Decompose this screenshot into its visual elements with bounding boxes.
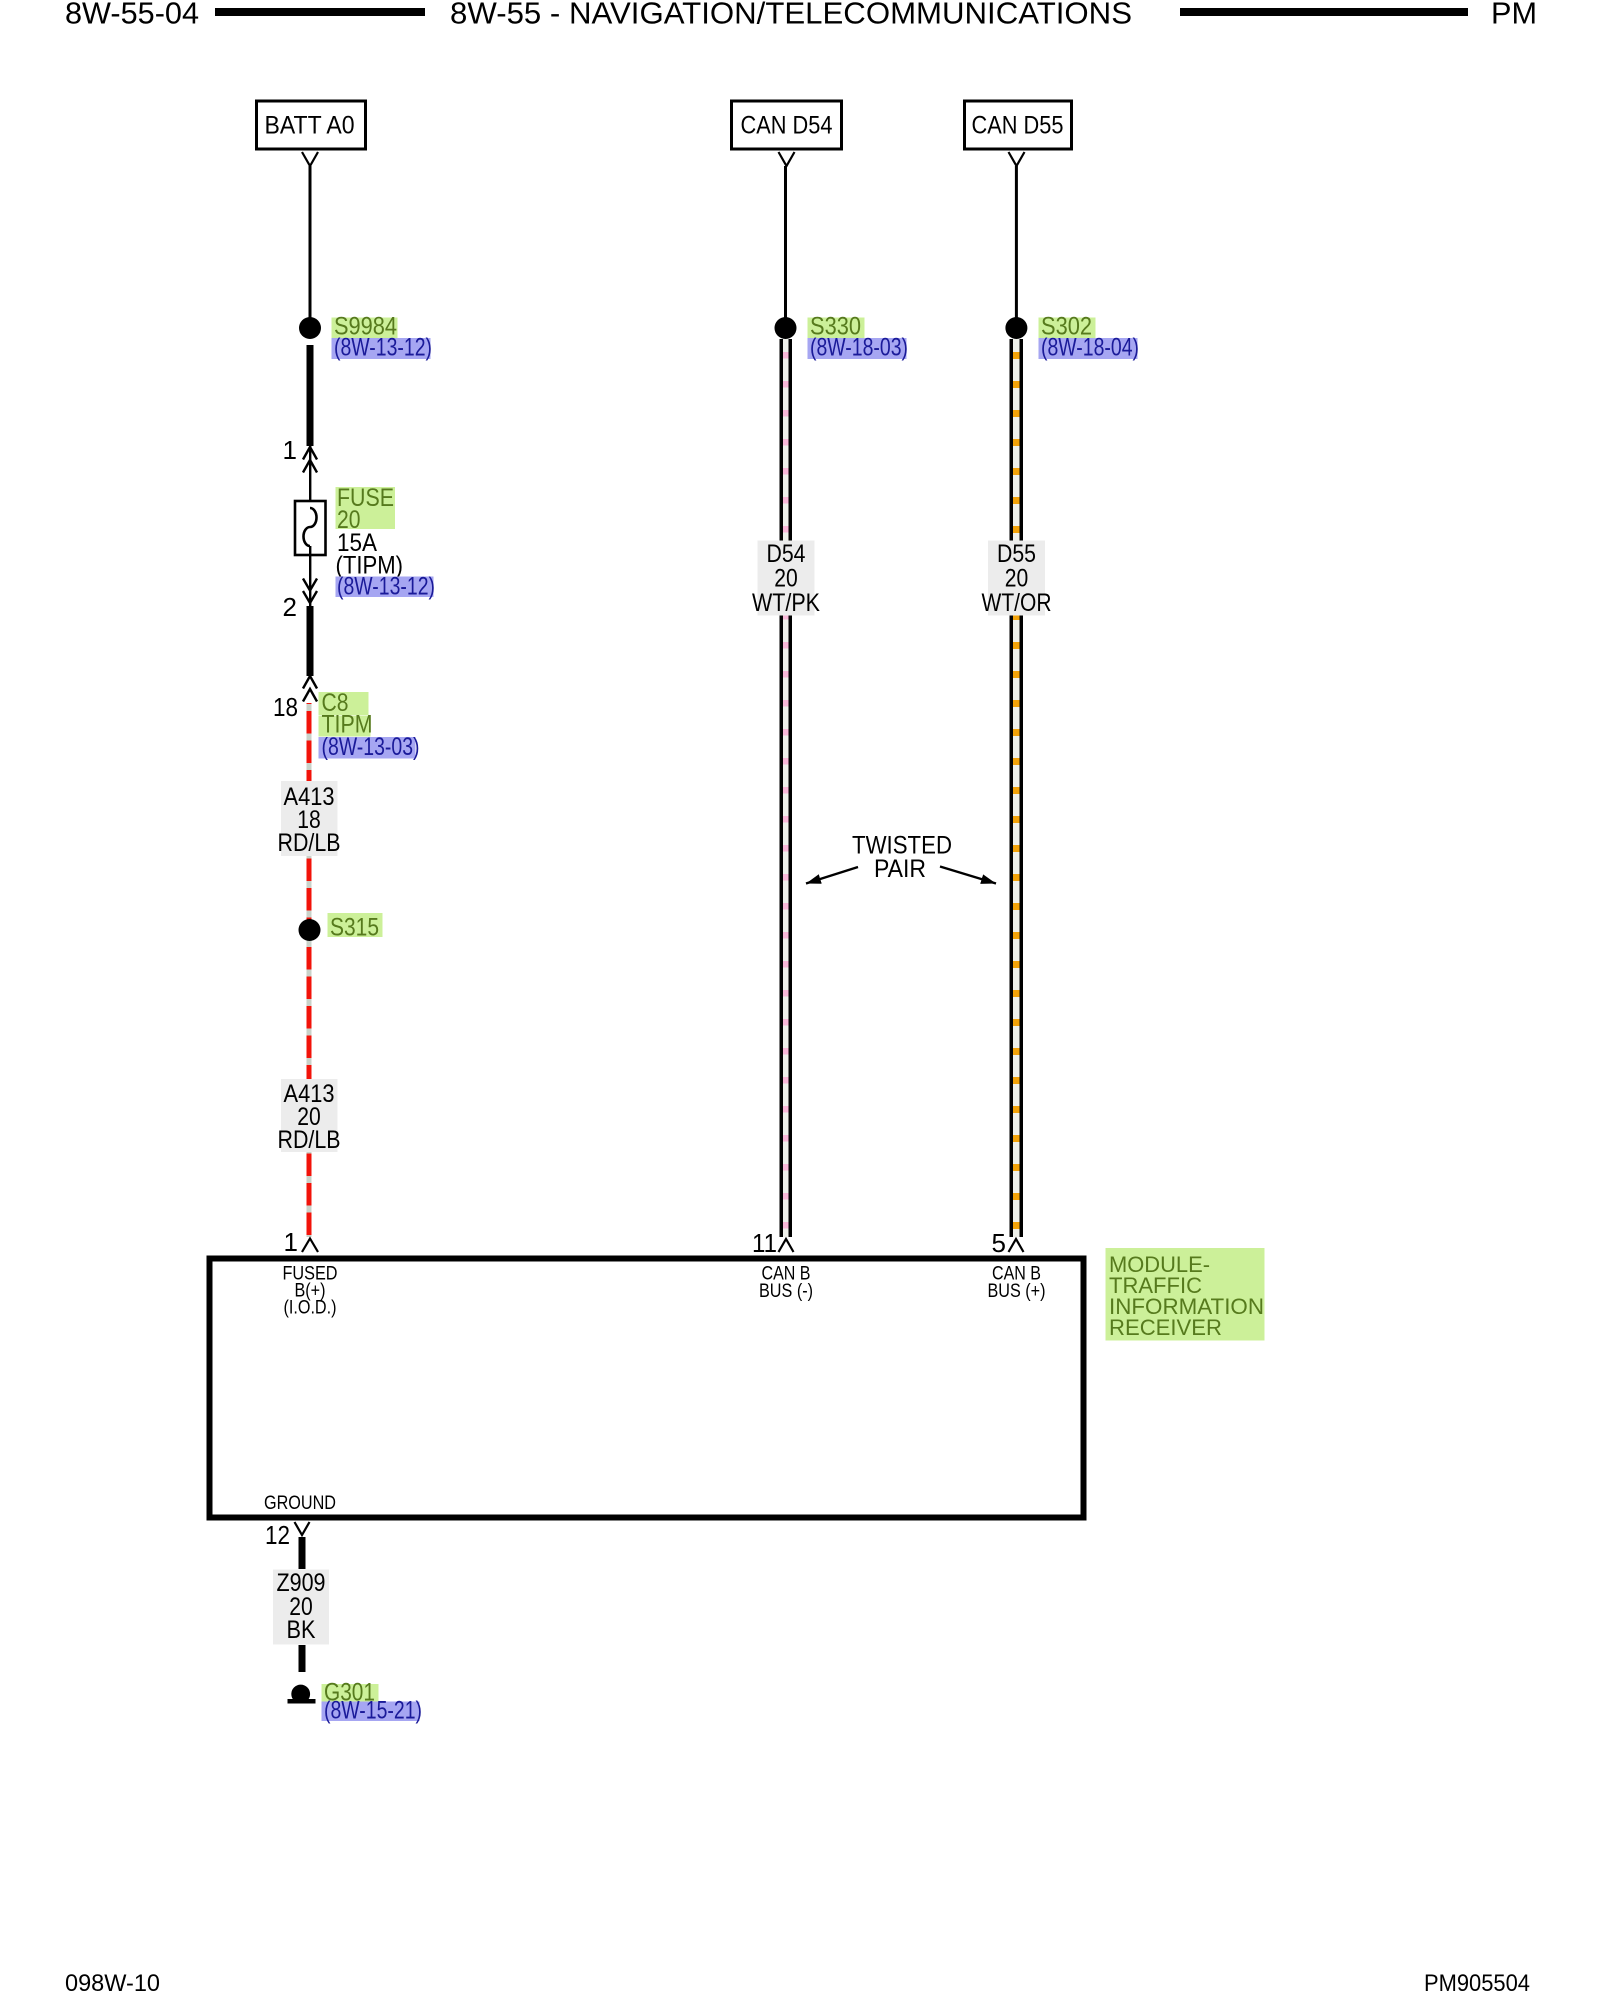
chevron below BATT A0 bbox=[302, 152, 318, 166]
svg-text:(8W-18-03): (8W-18-03) bbox=[810, 334, 908, 362]
reference (8W-13-03) bbox=[319, 733, 420, 761]
reference (8W-15-21) bbox=[322, 1697, 423, 1725]
svg-text:RD/LB: RD/LB bbox=[278, 829, 341, 857]
chevron below CAN D55 bbox=[1009, 152, 1025, 166]
svg-text:1: 1 bbox=[284, 1227, 298, 1257]
svg-text:(I.O.D.): (I.O.D.) bbox=[284, 1298, 337, 1319]
svg-text:CAN D54: CAN D54 bbox=[741, 112, 833, 140]
svg-text:(8W-13-12): (8W-13-12) bbox=[334, 334, 432, 362]
splice S330 bbox=[775, 317, 797, 339]
pin 12 chevron down bbox=[295, 1522, 310, 1535]
label D54 20 WT/PK bbox=[752, 540, 820, 617]
fuse FUSE 20 symbol bbox=[295, 501, 326, 555]
wire thick black to C8 bbox=[307, 606, 314, 676]
pin label CAN B BUS (-) bbox=[759, 1264, 813, 1303]
header rule left bbox=[215, 8, 425, 16]
wire BATT A0 to splice S9984 bbox=[309, 166, 312, 318]
svg-text:2: 2 bbox=[283, 592, 297, 622]
svg-text:18: 18 bbox=[273, 692, 298, 722]
note TWISTED PAIR bbox=[852, 832, 952, 884]
svg-text:WT/OR: WT/OR bbox=[982, 589, 1052, 617]
label TIPM bbox=[319, 711, 373, 739]
twisted pair arrow right bbox=[940, 867, 996, 884]
pin 11 chevron bbox=[779, 1239, 794, 1252]
svg-text:12: 12 bbox=[265, 1520, 290, 1550]
svg-text:BUS (+): BUS (+) bbox=[988, 1281, 1046, 1302]
twisted pair arrow left bbox=[806, 867, 858, 884]
splice S315 bbox=[299, 919, 321, 941]
wire twisted pair D55 WT/OR bbox=[1010, 339, 1024, 1237]
label D55 20 WT/OR bbox=[982, 540, 1052, 617]
svg-text:8W-55 - NAVIGATION/TELECOMMUNI: 8W-55 - NAVIGATION/TELECOMMUNICATIONS bbox=[450, 0, 1132, 31]
label S315 bbox=[328, 913, 383, 942]
reference (8W-18-03) bbox=[808, 334, 909, 362]
wire black Z909 upper bbox=[299, 1537, 306, 1569]
wire thick black S9984 down bbox=[307, 345, 314, 446]
svg-text:(8W-15-21): (8W-15-21) bbox=[324, 1697, 422, 1725]
module box TRAFFIC INFORMATION RECEIVER bbox=[210, 1259, 1084, 1518]
label A413 20 RD/LB bbox=[278, 1079, 341, 1154]
svg-text:S315: S315 bbox=[330, 914, 379, 942]
svg-text:PM: PM bbox=[1491, 0, 1537, 31]
label S330 bbox=[808, 313, 865, 341]
svg-text:098W-10: 098W-10 bbox=[65, 1970, 160, 1997]
wire CAN D55 to splice S302 bbox=[1015, 166, 1018, 318]
svg-text:BUS (-): BUS (-) bbox=[759, 1281, 813, 1302]
pin label CAN B BUS (+) bbox=[988, 1264, 1046, 1303]
pin 5 chevron bbox=[1009, 1239, 1024, 1252]
svg-text:11: 11 bbox=[752, 1228, 777, 1258]
svg-text:5: 5 bbox=[992, 1228, 1006, 1258]
label A413 18 RD/LB bbox=[278, 781, 341, 857]
header rule right bbox=[1180, 8, 1468, 16]
svg-text:RECEIVER: RECEIVER bbox=[1109, 1315, 1222, 1340]
label C8 bbox=[319, 689, 369, 717]
svg-text:WT/PK: WT/PK bbox=[752, 589, 820, 617]
chevron below CAN D54 bbox=[779, 152, 795, 166]
svg-text:RD/LB: RD/LB bbox=[278, 1126, 341, 1154]
svg-text:BATT A0: BATT A0 bbox=[265, 112, 355, 140]
wire red RD/LB upper run bbox=[307, 703, 312, 1237]
connector box CAN D55 bbox=[965, 101, 1072, 149]
connector box CAN D54 bbox=[732, 101, 842, 149]
pin label FUSED B(+) (I.O.D.) bbox=[283, 1264, 338, 1319]
reference (8W-13-12) bbox=[332, 334, 433, 362]
splice S9984 bbox=[299, 317, 321, 339]
module name label MODULE-TRAFFIC INFORMATION RECEIVER bbox=[1106, 1248, 1265, 1341]
label Z909 20 BK bbox=[273, 1569, 329, 1645]
connector arrows pin 18 C8 (double chevron up) bbox=[303, 676, 317, 702]
wire thin below fuse bbox=[309, 546, 311, 607]
label FUSE 20 bbox=[336, 484, 396, 534]
ground symbol G301 bbox=[288, 1685, 316, 1704]
svg-text:CAN D55: CAN D55 bbox=[972, 112, 1064, 140]
connector arrows pin 2 fuse (double chevron down) bbox=[303, 579, 317, 604]
svg-text:PM905504: PM905504 bbox=[1424, 1970, 1530, 1997]
connector box BATT A0 bbox=[257, 101, 366, 149]
svg-text:1: 1 bbox=[283, 435, 297, 465]
svg-text:(8W-13-12): (8W-13-12) bbox=[337, 573, 435, 601]
pin 1 chevron bbox=[302, 1239, 318, 1253]
connector arrows pin 1 fuse (double chevron up) bbox=[303, 447, 317, 473]
wire twisted pair D54 WT/PK bbox=[780, 339, 793, 1237]
wire CAN D54 to splice S330 bbox=[784, 166, 787, 318]
reference (8W-13-12) fuse bbox=[336, 573, 436, 601]
wire thin into fuse bbox=[309, 446, 311, 508]
label S9984 bbox=[332, 313, 398, 341]
reference (8W-18-04) bbox=[1039, 334, 1140, 362]
splice S302 bbox=[1005, 317, 1027, 339]
svg-text:(8W-18-04): (8W-18-04) bbox=[1041, 334, 1139, 362]
svg-text:PAIR: PAIR bbox=[874, 855, 926, 883]
label G301 bbox=[322, 1679, 379, 1707]
wire black Z909 lower bbox=[299, 1645, 306, 1672]
svg-text:GROUND: GROUND bbox=[264, 1493, 336, 1514]
label S302 bbox=[1039, 313, 1096, 341]
svg-text:BK: BK bbox=[287, 1616, 316, 1644]
svg-text:8W-55-04: 8W-55-04 bbox=[65, 0, 199, 31]
svg-text:(8W-13-03): (8W-13-03) bbox=[322, 733, 420, 761]
